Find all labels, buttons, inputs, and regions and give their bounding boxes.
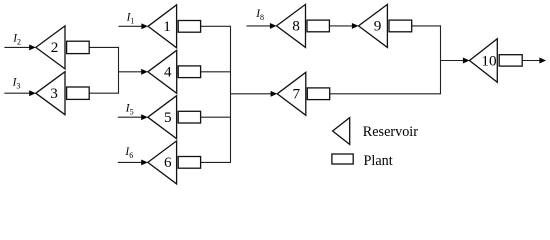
- svg-text:I8: I8: [255, 8, 264, 22]
- svg-text:4: 4: [164, 64, 172, 81]
- svg-text:5: 5: [164, 109, 172, 126]
- svg-text:I3: I3: [12, 77, 21, 91]
- svg-text:I2: I2: [12, 32, 21, 46]
- svg-text:I5: I5: [125, 102, 134, 116]
- svg-text:7: 7: [293, 86, 301, 103]
- svg-text:8: 8: [292, 18, 300, 35]
- svg-text:I1: I1: [126, 12, 135, 26]
- svg-text:6: 6: [164, 154, 172, 171]
- svg-text:3: 3: [50, 85, 58, 102]
- svg-text:1: 1: [163, 18, 171, 35]
- svg-text:10: 10: [481, 52, 497, 69]
- svg-text:9: 9: [374, 18, 382, 35]
- svg-text:Reservoir: Reservoir: [363, 124, 418, 140]
- svg-text:2: 2: [51, 39, 59, 56]
- svg-text:Plant: Plant: [364, 153, 393, 169]
- svg-text:I6: I6: [124, 146, 133, 160]
